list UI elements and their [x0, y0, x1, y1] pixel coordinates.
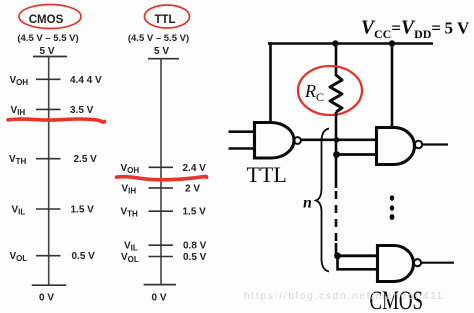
power rail VCC wire	[268, 42, 433, 45]
red marker line under TTL VOH	[117, 176, 207, 179]
svg-text:VOH: VOH	[10, 75, 29, 87]
CMOS gates label	[370, 286, 424, 313]
CMOS label VOL	[10, 251, 28, 263]
svg-text:2 V: 2 V	[185, 183, 200, 194]
TTL tick VIH 2V	[149, 187, 174, 189]
wire rail to TTL gate supply	[268, 44, 271, 123]
CMOS tick VIL 1.5V	[36, 208, 61, 210]
CMOS tick VIH 3.5V	[36, 108, 61, 110]
svg-text:VTH: VTH	[9, 154, 27, 166]
svg-text:n: n	[303, 195, 312, 212]
wire node to CMOS2 upper input	[337, 254, 379, 257]
CMOS tick VTH 2.5V	[36, 158, 61, 160]
TTL gate input wire A	[229, 130, 255, 133]
CMOS label VIH	[11, 105, 26, 117]
TTL gate input wire B	[229, 147, 255, 150]
svg-text:0 V: 0 V	[39, 293, 54, 304]
TTL label VOH	[121, 163, 140, 175]
CMOS value 1.5V	[71, 205, 95, 216]
svg-text:VIH: VIH	[11, 105, 26, 117]
svg-text:2.4 V: 2.4 V	[183, 163, 207, 174]
svg-text:VOH: VOH	[121, 163, 140, 175]
svg-text:VTH: VTH	[121, 207, 139, 219]
svg-text:0.8 V: 0.8 V	[183, 241, 207, 252]
svg-text:1.5 V: 1.5 V	[71, 205, 95, 216]
svg-text:VCC=VDD= 5 V: VCC=VDD= 5 V	[361, 18, 470, 42]
junction node at resistor top	[332, 40, 338, 46]
CMOS scale axis	[48, 57, 50, 286]
brace for n gates	[316, 129, 329, 272]
svg-text:TTL: TTL	[247, 162, 287, 187]
TTL column title	[154, 14, 175, 26]
CMOS2 gate output bubble	[414, 259, 421, 266]
svg-text:VOL: VOL	[10, 251, 28, 263]
svg-text:(4.5 V – 5.5 V): (4.5 V – 5.5 V)	[17, 33, 78, 44]
TTL tick VIL 0.8V	[149, 244, 174, 246]
svg-text:0 V: 0 V	[151, 293, 166, 304]
TTL NAND gate U1	[255, 123, 295, 159]
TTL value 2V	[185, 183, 200, 194]
TTL gate label	[247, 162, 287, 187]
TTL value 0.5V	[183, 252, 207, 263]
junction node CMOS2 input	[334, 252, 341, 259]
resistor label RC	[304, 81, 324, 104]
svg-text:2.5 V: 2.5 V	[74, 154, 98, 165]
svg-text:VIH: VIH	[122, 183, 137, 195]
CMOS column title ellipse	[19, 5, 81, 29]
svg-text:1.5 V: 1.5 V	[183, 207, 207, 218]
TTL range label	[128, 33, 189, 44]
vertical ellipsis between gates	[390, 195, 395, 220]
CMOS column title	[29, 14, 64, 26]
CMOS1 output wire	[423, 143, 449, 145]
CMOS label VIL	[12, 205, 26, 217]
svg-text:0.5 V: 0.5 V	[72, 251, 96, 262]
CMOS NAND gate U3	[378, 246, 414, 282]
svg-text:RC: RC	[304, 81, 324, 104]
junction node at CMOS supply	[389, 40, 395, 46]
svg-text:0.5 V: 0.5 V	[183, 252, 207, 263]
CMOS label VTH	[9, 154, 27, 166]
TTL 5V label	[154, 46, 169, 57]
svg-text:VIL: VIL	[12, 205, 26, 217]
svg-text:VIL: VIL	[124, 241, 138, 253]
CMOS tick VOL 0.5V	[36, 255, 61, 257]
wire rail to resistor	[335, 44, 338, 77]
TTL scale bottom bar	[144, 284, 176, 286]
CMOS2 output wire	[422, 262, 455, 264]
CMOS NAND gate U2	[377, 128, 415, 165]
TTL label VOL	[121, 252, 139, 264]
TTL label VIH	[122, 183, 137, 195]
TTL scale axis	[160, 59, 162, 285]
TTL value 1.5V	[183, 207, 207, 218]
svg-text:3.5 V: 3.5 V	[70, 105, 94, 116]
wire bus dashed	[335, 191, 338, 243]
wire resistor to output node	[335, 112, 338, 155]
svg-text:(4.5 V – 5.5 V): (4.5 V – 5.5 V)	[128, 33, 189, 44]
svg-text:5 V: 5 V	[154, 46, 169, 57]
svg-text:4.4 4 V: 4.4 4 V	[70, 75, 102, 86]
svg-text:VOL: VOL	[121, 252, 139, 264]
wire rail to CMOS1 supply	[391, 44, 394, 129]
TTL gate output bubble	[294, 137, 301, 144]
svg-text:CMOS: CMOS	[29, 14, 64, 26]
svg-text:5 V: 5 V	[39, 46, 54, 57]
svg-text:TTL: TTL	[154, 14, 175, 26]
red ellipse around RC	[298, 66, 362, 115]
CMOS scale bottom bar	[32, 284, 67, 286]
TTL tick VTH 1.5V	[149, 210, 174, 212]
CMOS 5V label	[39, 46, 54, 57]
CMOS label VOH	[10, 75, 29, 87]
CMOS scale top bar	[33, 56, 67, 58]
TTL tick VOL 0.5V	[149, 256, 174, 258]
resistor RC zigzag	[330, 75, 342, 112]
CMOS value 4.44V	[70, 75, 102, 86]
TTL value 2.4V	[183, 163, 207, 174]
CMOS tick VOH 4.44V	[36, 78, 61, 80]
TTL 0V label	[151, 293, 166, 304]
VCC=VDD=5V supply label	[361, 18, 470, 42]
CMOS 0V label	[39, 293, 54, 304]
wire TTL output to node	[301, 139, 378, 142]
watermark	[244, 291, 444, 302]
svg-text:https://blog.csdn.net/mahoon41: https://blog.csdn.net/mahoon411	[244, 291, 444, 302]
CMOS value 3.5V	[70, 105, 94, 116]
TTL label VIL	[124, 241, 138, 253]
wire bus solid lower	[335, 243, 338, 256]
CMOS value 0.5V	[72, 251, 96, 262]
wire bus solid upper	[335, 155, 338, 188]
TTL label VTH	[121, 207, 139, 219]
CMOS1 gate output bubble	[415, 141, 422, 148]
junction node TTL output upper	[334, 137, 340, 143]
CMOS value 2.5V	[74, 154, 98, 165]
TTL scale top bar	[148, 58, 179, 60]
TTL tick VOH 2.4V	[149, 166, 174, 168]
red marker line under CMOS VIH	[8, 119, 105, 122]
TTL column title ellipse	[145, 5, 190, 28]
wire node down to CMOS2 lower input	[338, 256, 380, 269]
wire node to CMOS1 lower input	[336, 153, 378, 156]
junction node TTL output lower	[333, 151, 340, 158]
TTL value 0.8V	[183, 241, 207, 252]
CMOS range label	[17, 33, 78, 44]
label n	[303, 195, 312, 212]
